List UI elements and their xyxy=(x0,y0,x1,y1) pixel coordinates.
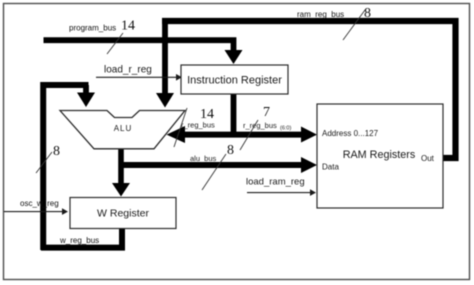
svg-text:Address 0...127: Address 0...127 xyxy=(322,129,379,138)
svg-text:8: 8 xyxy=(53,144,60,159)
svg-text:load_ram_reg: load_ram_reg xyxy=(246,177,305,188)
svg-text:program_bus: program_bus xyxy=(69,24,116,33)
svg-text:Out: Out xyxy=(421,154,435,163)
svg-text:r_reg_bus: r_reg_bus xyxy=(181,121,215,130)
svg-text:ALU: ALU xyxy=(114,124,133,133)
svg-text:ram_reg_bus: ram_reg_bus xyxy=(297,10,344,19)
svg-text:RAM Registers: RAM Registers xyxy=(343,149,416,161)
svg-text:8: 8 xyxy=(227,143,234,158)
svg-text:r_reg_bus: r_reg_bus xyxy=(243,121,277,130)
svg-text:(6:0): (6:0) xyxy=(280,126,291,132)
svg-text:load_r_reg: load_r_reg xyxy=(104,65,152,76)
svg-text:alu_bus: alu_bus xyxy=(190,154,217,163)
svg-text:Instruction Register: Instruction Register xyxy=(187,75,282,87)
svg-text:8: 8 xyxy=(364,6,371,21)
svg-text:w_reg_bus: w_reg_bus xyxy=(59,236,99,245)
svg-text:osc_w_reg: osc_w_reg xyxy=(20,199,59,208)
svg-text:7: 7 xyxy=(263,105,270,120)
svg-text:14: 14 xyxy=(121,19,135,34)
svg-text:Data: Data xyxy=(322,163,339,172)
svg-text:W Register: W Register xyxy=(97,208,149,220)
